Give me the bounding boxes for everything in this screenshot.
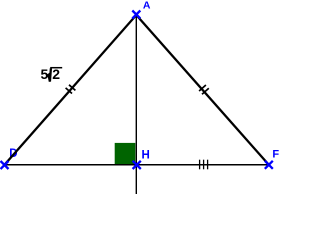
side DA xyxy=(4,15,136,165)
vertex cross H xyxy=(133,161,141,169)
double tick marks on side DA xyxy=(66,85,76,94)
vertex cross F xyxy=(265,161,273,169)
double tick marks on side AF xyxy=(199,85,209,94)
triple tick marks on segment HF xyxy=(200,160,208,170)
svg-text:A: A xyxy=(143,0,151,12)
vertex cross A xyxy=(132,11,140,19)
svg-text:5: 5 xyxy=(41,66,49,82)
svg-text:F: F xyxy=(272,148,279,160)
svg-text:2: 2 xyxy=(52,66,60,82)
vertex cross D xyxy=(1,161,9,169)
right-angle square at H xyxy=(115,143,136,165)
altitude AH xyxy=(135,15,137,194)
label 5 sqrt 2 xyxy=(41,66,63,82)
base line DF xyxy=(3,164,269,166)
svg-text:H: H xyxy=(142,150,150,162)
side AF xyxy=(136,15,268,165)
